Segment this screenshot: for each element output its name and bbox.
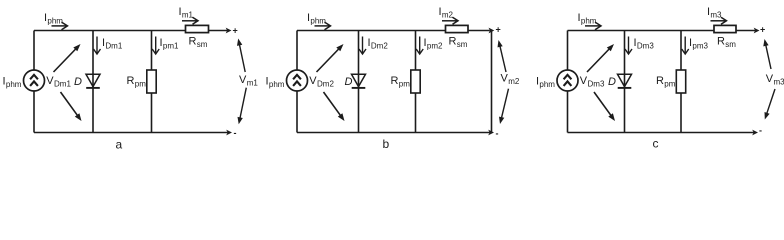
wire: top rail c left segment [568,30,715,32]
wire: right branch b [491,31,493,133]
svg-text:pm: pm [664,80,675,89]
voltage arrow Vm1 up (a) [237,39,245,73]
label VDm2 (b) [309,75,334,89]
diode D (a) [86,74,100,88]
label Rpm (c) [656,75,676,89]
svg-text:Dm2: Dm2 [317,80,334,89]
label D (b) [345,76,353,88]
wire: top rail a left segment [34,30,186,32]
svg-text:R: R [189,36,197,48]
photocurrent arrow lower (b) [324,92,345,121]
svg-text:+: + [760,25,765,35]
resistor Rpm (a) [147,70,156,93]
current arrow Ipm3 (c) [682,37,689,55]
diode D (c) [618,74,632,88]
wire: top rail b right segment after Rsm [468,30,490,32]
svg-text:sm: sm [457,40,468,49]
wire: bottom rail a [34,132,228,134]
wire: bottom rail c [568,132,754,134]
terminal arrowhead + (a) [226,28,232,34]
current arrow IDm2 (b) [359,37,366,55]
label Rsm (b) [449,36,468,50]
current arrow IDm3 (c) [625,37,632,55]
label Iphm left (c) [536,76,555,90]
label Iphm top (b) [307,12,326,26]
label VDm1 (a) [46,75,71,89]
terminal arrowhead + (c) [754,28,760,34]
svg-text:R: R [656,75,664,87]
label Iphm top (c) [578,12,597,26]
svg-text:R: R [449,36,457,48]
svg-text:sm: sm [725,40,736,49]
svg-text:-: - [234,128,237,138]
label - (a) [234,128,237,138]
svg-text:pm3: pm3 [692,42,708,51]
current arrow Ipm1 (a) [152,37,159,55]
svg-text:phm: phm [581,17,597,26]
label IDm3 (c) [634,37,655,51]
label Im2 (b) [439,6,454,19]
label b [383,137,390,151]
svg-text:Dm3: Dm3 [637,42,654,51]
svg-text:R: R [717,36,725,48]
label + (b) [496,25,501,35]
photocurrent arrow lower (a) [61,92,82,121]
wire: diode branch a [92,31,94,133]
label + (a) [233,26,238,36]
terminal arrowhead + (b) [489,28,495,34]
label D (c) [608,76,616,88]
wire: left branch c [567,31,569,133]
resistor Rsm (a) [186,25,209,32]
label Vm3 (c) [766,73,784,87]
current arrow Iphm top (b) [315,22,331,30]
wire: left branch b [296,31,298,133]
wire: left branch a [33,31,35,133]
label Rsm (c) [717,36,736,50]
label - (b) [496,129,499,139]
svg-text:m2: m2 [442,10,454,19]
wire: top rail a right segment after Rsm [209,30,228,32]
label + (c) [760,25,765,35]
svg-text:-: - [496,129,499,139]
svg-text:m3: m3 [774,78,784,87]
photocurrent arrow lower (c) [594,92,615,121]
terminal arrowhead - (a) [226,130,232,136]
svg-text:m1: m1 [247,79,259,88]
terminal arrowhead - (c) [752,130,758,136]
svg-text:Dm2: Dm2 [371,42,388,51]
svg-text:pm: pm [399,80,410,89]
current arrow Ipm2 (b) [416,37,423,55]
current arrow Iphm top (c) [585,22,601,30]
current arrow Im2 (b) [442,17,458,24]
svg-text:D: D [74,76,82,88]
label Rsm (a) [189,36,208,50]
label IDm2 (b) [368,37,389,51]
current source Iphm (a) [24,70,45,91]
svg-text:sm: sm [197,40,208,49]
resistor Rsm (c) [714,25,736,32]
label VDm3 (c) [580,75,605,89]
wire: Rpm branch c [680,31,682,133]
resistor Rpm (b) [411,70,420,93]
current arrow Im3 (c) [711,17,727,24]
svg-text:m3: m3 [710,10,722,19]
label Vm2 (b) [501,73,520,87]
label - (c) [759,126,762,136]
svg-text:pm: pm [135,80,146,89]
svg-text:a: a [116,138,123,151]
wire: top rail c right segment after Rsm [736,30,755,32]
voltage arrow Vm2 down (b) [499,89,509,124]
label Rpm (a) [127,75,147,89]
svg-text:phm: phm [269,80,285,89]
svg-text:-: - [759,126,762,136]
resistor Rpm (c) [676,70,685,93]
resistor Rsm (b) [446,25,469,32]
current arrow Im1 (a) [182,17,198,24]
svg-text:R: R [127,75,135,87]
label Ipm3 (c) [689,37,709,51]
label a [116,138,123,152]
label Iphm left (b) [266,76,285,90]
voltage arrow Vm3 up (c) [763,39,771,69]
voltage arrow Vm1 down (a) [238,88,247,125]
wire: diode branch b [358,31,360,133]
voltage arrow Vm3 down (c) [765,89,776,120]
label Vm1 (a) [239,74,258,88]
svg-text:phm: phm [6,80,22,89]
wire: bottom rail b [297,132,490,134]
label IDm1 (a) [102,37,123,51]
svg-text:+: + [496,25,501,35]
current arrow IDm1 (a) [94,37,101,55]
svg-text:D: D [345,76,353,88]
photocurrent arrow upper (c) [587,44,614,72]
diode D (b) [352,74,366,88]
photocurrent arrow upper (b) [317,44,344,72]
svg-text:R: R [391,75,399,87]
wire: top rail b left segment [297,30,446,32]
svg-text:m2: m2 [508,77,520,86]
svg-text:phm: phm [539,80,555,89]
label Rpm (b) [391,75,411,89]
terminal arrowhead - (b) [488,130,494,136]
label Ipm2 (b) [424,37,444,51]
svg-text:c: c [653,137,659,151]
svg-text:Dm1: Dm1 [105,42,122,51]
voltage arrow Vm2 up (b) [498,40,507,72]
current source Iphm (c) [557,70,578,91]
svg-text:Dm1: Dm1 [54,80,71,89]
svg-text:pm2: pm2 [427,42,443,51]
svg-text:m1: m1 [182,10,194,19]
wire: Rpm branch b [415,31,417,133]
svg-text:phm: phm [310,17,326,26]
label D (a) [74,76,82,88]
photocurrent arrow upper (a) [54,44,81,72]
label Im1 (a) [179,6,194,19]
svg-text:phm: phm [47,17,63,26]
svg-text:pm1: pm1 [163,42,179,51]
label Iphm left (a) [3,76,22,90]
label Ipm1 (a) [160,37,180,51]
label Iphm top (a) [44,12,63,26]
svg-text:+: + [233,26,238,36]
current arrow Iphm top (a) [52,22,68,30]
label Im3 (c) [707,6,722,19]
wire: diode branch c [624,31,626,133]
svg-text:Dm3: Dm3 [588,80,605,89]
svg-text:b: b [383,137,390,150]
wire: Rpm branch a [151,31,153,133]
current source Iphm (b) [287,70,308,91]
svg-text:D: D [608,76,616,88]
label c [653,137,659,151]
